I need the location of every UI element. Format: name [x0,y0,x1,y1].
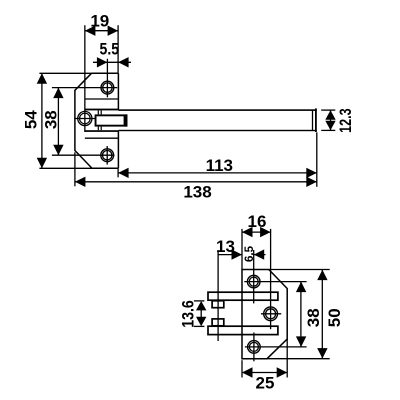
svg-text:13: 13 [216,237,235,256]
bottom hole vertical centerline [106,146,108,165]
dimension 19: right arrow [108,26,119,36]
dimension 25: right arrow [277,367,288,377]
pivot bushing inner ring [80,113,91,124]
svg-text:54: 54 [21,110,40,129]
dimension 38: top extension line through hole [52,87,117,89]
dimension 138: left arrow [75,177,86,187]
pivot horizontal centerline [74,118,96,120]
dimension 113: right arrow [306,168,317,178]
rivet line right bottom [101,127,102,131]
dimension 138: left extension line [74,152,76,186]
dimension 38 (front): bottom arrow [296,336,306,347]
dimension 25: left extension line [241,360,243,377]
svg-text:113: 113 [206,156,233,175]
dimension 113: right extension line [316,132,318,187]
dimension 12.3: bottom extension line [321,129,335,131]
hub boss lines [85,99,119,138]
square nut bottom [212,319,224,326]
dimension 5.5: dimension line and tails [93,61,131,63]
dimension 16: left extension line [241,229,243,270]
bottom hole horizontal centerline + 38 bottom extension [245,346,307,348]
bracket hole bottom (outer ring) [248,341,261,354]
dimension 12.3: connector line [330,110,332,130]
dimension 138: dimension line [75,181,317,183]
dimension 13.6: top extension line [194,300,205,302]
bracket hole middle (inner ring) [266,309,276,319]
dimension 19: dimension line [85,30,118,32]
bracket hole top (inner ring) [249,277,258,286]
top hole vertical centerline [106,59,108,98]
dimension 16: dimension line [242,231,271,233]
dimension 50: bottom arrow [317,348,327,358]
dimension 25: right extension line [286,339,288,378]
arm right end cap [315,108,317,132]
latch bar end cap [124,114,128,126]
dimension 5.5: right outside arrow [118,57,129,67]
dimension 13.6: bottom arrow [196,317,206,326]
dimension 50: bottom extension line [267,358,330,360]
arm bottom edge [85,130,119,132]
rivet line left bottom [98,127,99,131]
top hole vertical centerline [253,250,255,303]
dimension 13.6: connector line [200,308,202,319]
svg-text:38: 38 [42,110,61,129]
dimension 13.6: top arrow [196,301,206,310]
middle hole vertical centerline + 16 right extension [270,229,272,329]
dimension 19: extension line right [117,25,119,73]
dimension 50: top extension line [269,269,330,271]
dimension 13.6: bottom extension line [194,325,205,327]
svg-text:5.5: 5.5 [100,40,120,59]
bottom hole vertical centerline [253,333,255,362]
top hole horizontal centerline + 38 top extension [244,281,306,283]
dimension 38: bottom extension line through hole [52,154,115,156]
dimension 113: left extension line [117,168,119,177]
rivet line left top [98,110,99,114]
mounting hole top (outer ring) [101,81,114,94]
svg-text:138: 138 [183,182,211,201]
dimension 13: dimension line [218,254,242,256]
dimension 13 / 6.5 shared arrow [232,249,243,259]
mounting hole bottom (inner ring) [103,151,112,160]
dimension 12.3: top arrow [325,110,335,120]
bracket hole middle (outer ring) [264,307,278,321]
dimension 19: left arrow [85,26,96,36]
bracket hole top (outer ring) [247,275,260,288]
svg-text:16: 16 [248,212,267,231]
square nut top [212,301,224,308]
dimension 5.5: left outside arrow [97,57,108,67]
dimension 54: dimension line [41,73,43,168]
svg-text:13.6: 13.6 [178,300,197,328]
dimension 50: top arrow [317,270,327,280]
dimension 38: bottom arrow [53,145,63,156]
dimension 50: dimension line [321,270,323,359]
dimension 54: bottom extension line [39,167,92,169]
dimension 25: dimension line [242,372,287,374]
dimension 16: left arrow [242,227,253,237]
pivot bushing outer ring [78,111,92,125]
dimension 6.5: tail line [254,254,266,256]
plate bracket outline (top view) [75,73,119,168]
dimension 38: dimension line [57,88,59,156]
dimension 38 (front): dimension line [300,282,302,347]
dimension 138: right arrow [306,177,317,187]
dimension 16: right arrow [260,227,271,237]
mounting hole top (inner ring) [103,83,112,92]
svg-text:6.5: 6.5 [244,245,256,262]
dimension 54: top extension line [39,72,92,74]
dimension 38: top arrow [53,88,63,99]
dimension 38 (front): top arrow [296,282,306,293]
fork bottom prong [208,326,278,334]
dimension 25: left arrow [242,367,253,377]
svg-text:50: 50 [325,308,344,327]
middle hole horizontal centerline [261,313,281,315]
dimension 113: left arrow [118,168,129,178]
svg-text:38: 38 [304,308,323,327]
dimension 13: left extension line [217,250,219,341]
mounting hole bottom (outer ring) [101,149,114,162]
svg-text:25: 25 [256,374,275,393]
fork top prong [208,292,278,300]
dimension 6.5: right outside arrow [254,249,265,259]
dimension 54: bottom arrow [37,158,47,169]
arm right end inner line [312,110,314,130]
dimension 113: dimension line [118,172,317,174]
svg-text:12.3: 12.3 [336,108,355,133]
dimension 54: top arrow [37,73,47,84]
dimension 12.3: bottom arrow [325,121,335,131]
pivot vertical centerline [84,25,86,132]
svg-text:19: 19 [90,12,109,31]
arm top edge [85,109,119,111]
rivet line right top [101,110,102,114]
bracket hole bottom (inner ring) [249,342,258,351]
latch bar outline (thick) [96,115,127,125]
bracket outline (front view) [242,270,287,359]
dimension 12.3: top extension line [321,109,335,111]
